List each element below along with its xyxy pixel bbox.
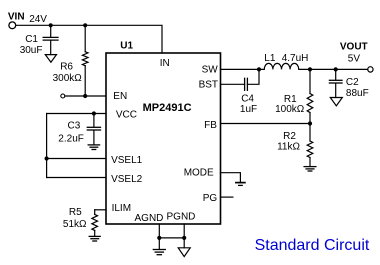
svg-text:C3: C3 [68,120,81,131]
svg-text:R5: R5 [69,207,82,218]
svg-text:VIN: VIN [8,12,25,23]
svg-text:C1: C1 [25,34,38,45]
svg-text:BST: BST [199,80,218,91]
svg-text:VCC: VCC [116,109,137,120]
svg-text:ILIM: ILIM [112,203,131,214]
svg-text:C4: C4 [241,93,254,104]
svg-text:R6: R6 [60,61,73,72]
svg-text:U1: U1 [120,40,133,51]
svg-text:51kΩ: 51kΩ [63,219,87,230]
svg-text:IN: IN [160,58,170,69]
svg-text:88uF: 88uF [346,88,369,99]
svg-text:300kΩ: 300kΩ [53,73,83,84]
svg-text:SW: SW [202,64,219,75]
svg-text:30uF: 30uF [20,45,43,56]
svg-text:4.7uH: 4.7uH [282,53,309,64]
svg-text:L1: L1 [264,53,276,64]
svg-text:11kΩ: 11kΩ [277,142,300,153]
svg-text:MODE: MODE [184,168,214,179]
svg-text:VSEL2: VSEL2 [111,174,143,185]
svg-text:VSEL1: VSEL1 [111,155,143,166]
svg-text:1uF: 1uF [240,104,257,115]
svg-text:MP2491C: MP2491C [143,102,192,114]
svg-text:PG: PG [203,193,218,204]
svg-text:Standard Circuit: Standard Circuit [255,237,370,254]
svg-text:100kΩ: 100kΩ [275,104,305,115]
svg-text:C2: C2 [346,77,359,88]
svg-text:5V: 5V [348,53,361,64]
svg-text:FB: FB [204,120,217,131]
svg-text:R2: R2 [283,131,296,142]
svg-text:PGND: PGND [167,212,196,223]
svg-text:2.2uF: 2.2uF [58,134,84,145]
svg-text:AGND: AGND [135,213,164,224]
svg-text:EN: EN [113,91,127,102]
svg-text:VOUT: VOUT [340,42,368,53]
svg-text:24V: 24V [29,14,47,25]
